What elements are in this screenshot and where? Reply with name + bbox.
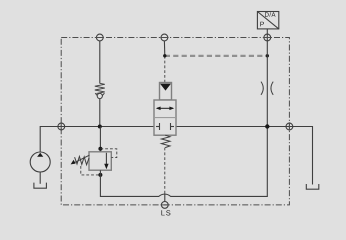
boundary chord through port LS (161, 204, 169, 206)
main valve MV pilot dashed from node (164, 56, 166, 83)
tank right (306, 184, 319, 189)
main valve MV top cell arrow (157, 107, 173, 109)
boundary chord through gauge port (263, 37, 271, 39)
check valve V1 ball (97, 93, 102, 98)
junction dot relief pilot tap (98, 147, 102, 151)
wire port X to pilot node (163, 41, 165, 56)
wire relief valve branch upper (99, 127, 101, 152)
port circle top gauge (264, 34, 271, 41)
port circle right T (286, 123, 293, 130)
pressure transducer U1 box (257, 12, 278, 29)
port circle top X (161, 34, 168, 41)
port circle top A (96, 34, 103, 41)
LS gray pilot line dashed (165, 55, 267, 57)
wire relief outlet to LS rail (100, 127, 267, 197)
port circle left P (58, 123, 65, 130)
boundary chord through port X (160, 37, 168, 39)
relief valve RV1 drain dashed (81, 166, 101, 175)
main valve MV bottom cell blocked ports (156, 126, 160, 128)
junction dot P line / check branch (98, 125, 102, 129)
junction dot cross P/T line (265, 124, 269, 128)
wire transducer branch through orifice (266, 56, 268, 127)
wire check valve branch (99, 41, 101, 84)
check valve V1 seat (95, 93, 104, 98)
boundary chord through port A (96, 37, 104, 39)
wire pump outlet to P line (40, 127, 159, 153)
relief valve RV1 spring (75, 156, 89, 164)
junction dot pilot right (266, 54, 269, 57)
main valve MV spring (161, 135, 170, 147)
junction dot relief outlet (98, 173, 102, 177)
check valve V1 spring (95, 83, 105, 93)
boundary chord through port P (60, 122, 62, 130)
label LS (161, 210, 164, 215)
tank left (34, 183, 47, 189)
relief valve RV1 adjust arrow (73, 155, 90, 163)
label P on transducer (260, 22, 264, 27)
wire LS port stub (164, 194, 166, 202)
main valve MV body (154, 100, 176, 135)
boundary dash-dot enclosure (61, 38, 289, 205)
wire pump to tank (39, 172, 41, 184)
wire P line right segment (171, 127, 313, 185)
main valve MV LS dashed line to LS port (164, 148, 166, 194)
orifice restrictor (261, 82, 273, 95)
junction dot pilot left (163, 54, 166, 57)
label D/A on transducer (265, 12, 269, 16)
relief valve RV1 body (89, 152, 111, 170)
relief valve RV1 pilot line dashed (100, 149, 116, 158)
port circle bottom LS (161, 202, 168, 209)
boundary chord through port T (288, 122, 290, 130)
pump P1 (30, 152, 50, 172)
main valve MV pilot head (160, 83, 172, 101)
wire transducer to node (266, 29, 268, 56)
relief valve RV1 flow arrow (105, 153, 107, 164)
